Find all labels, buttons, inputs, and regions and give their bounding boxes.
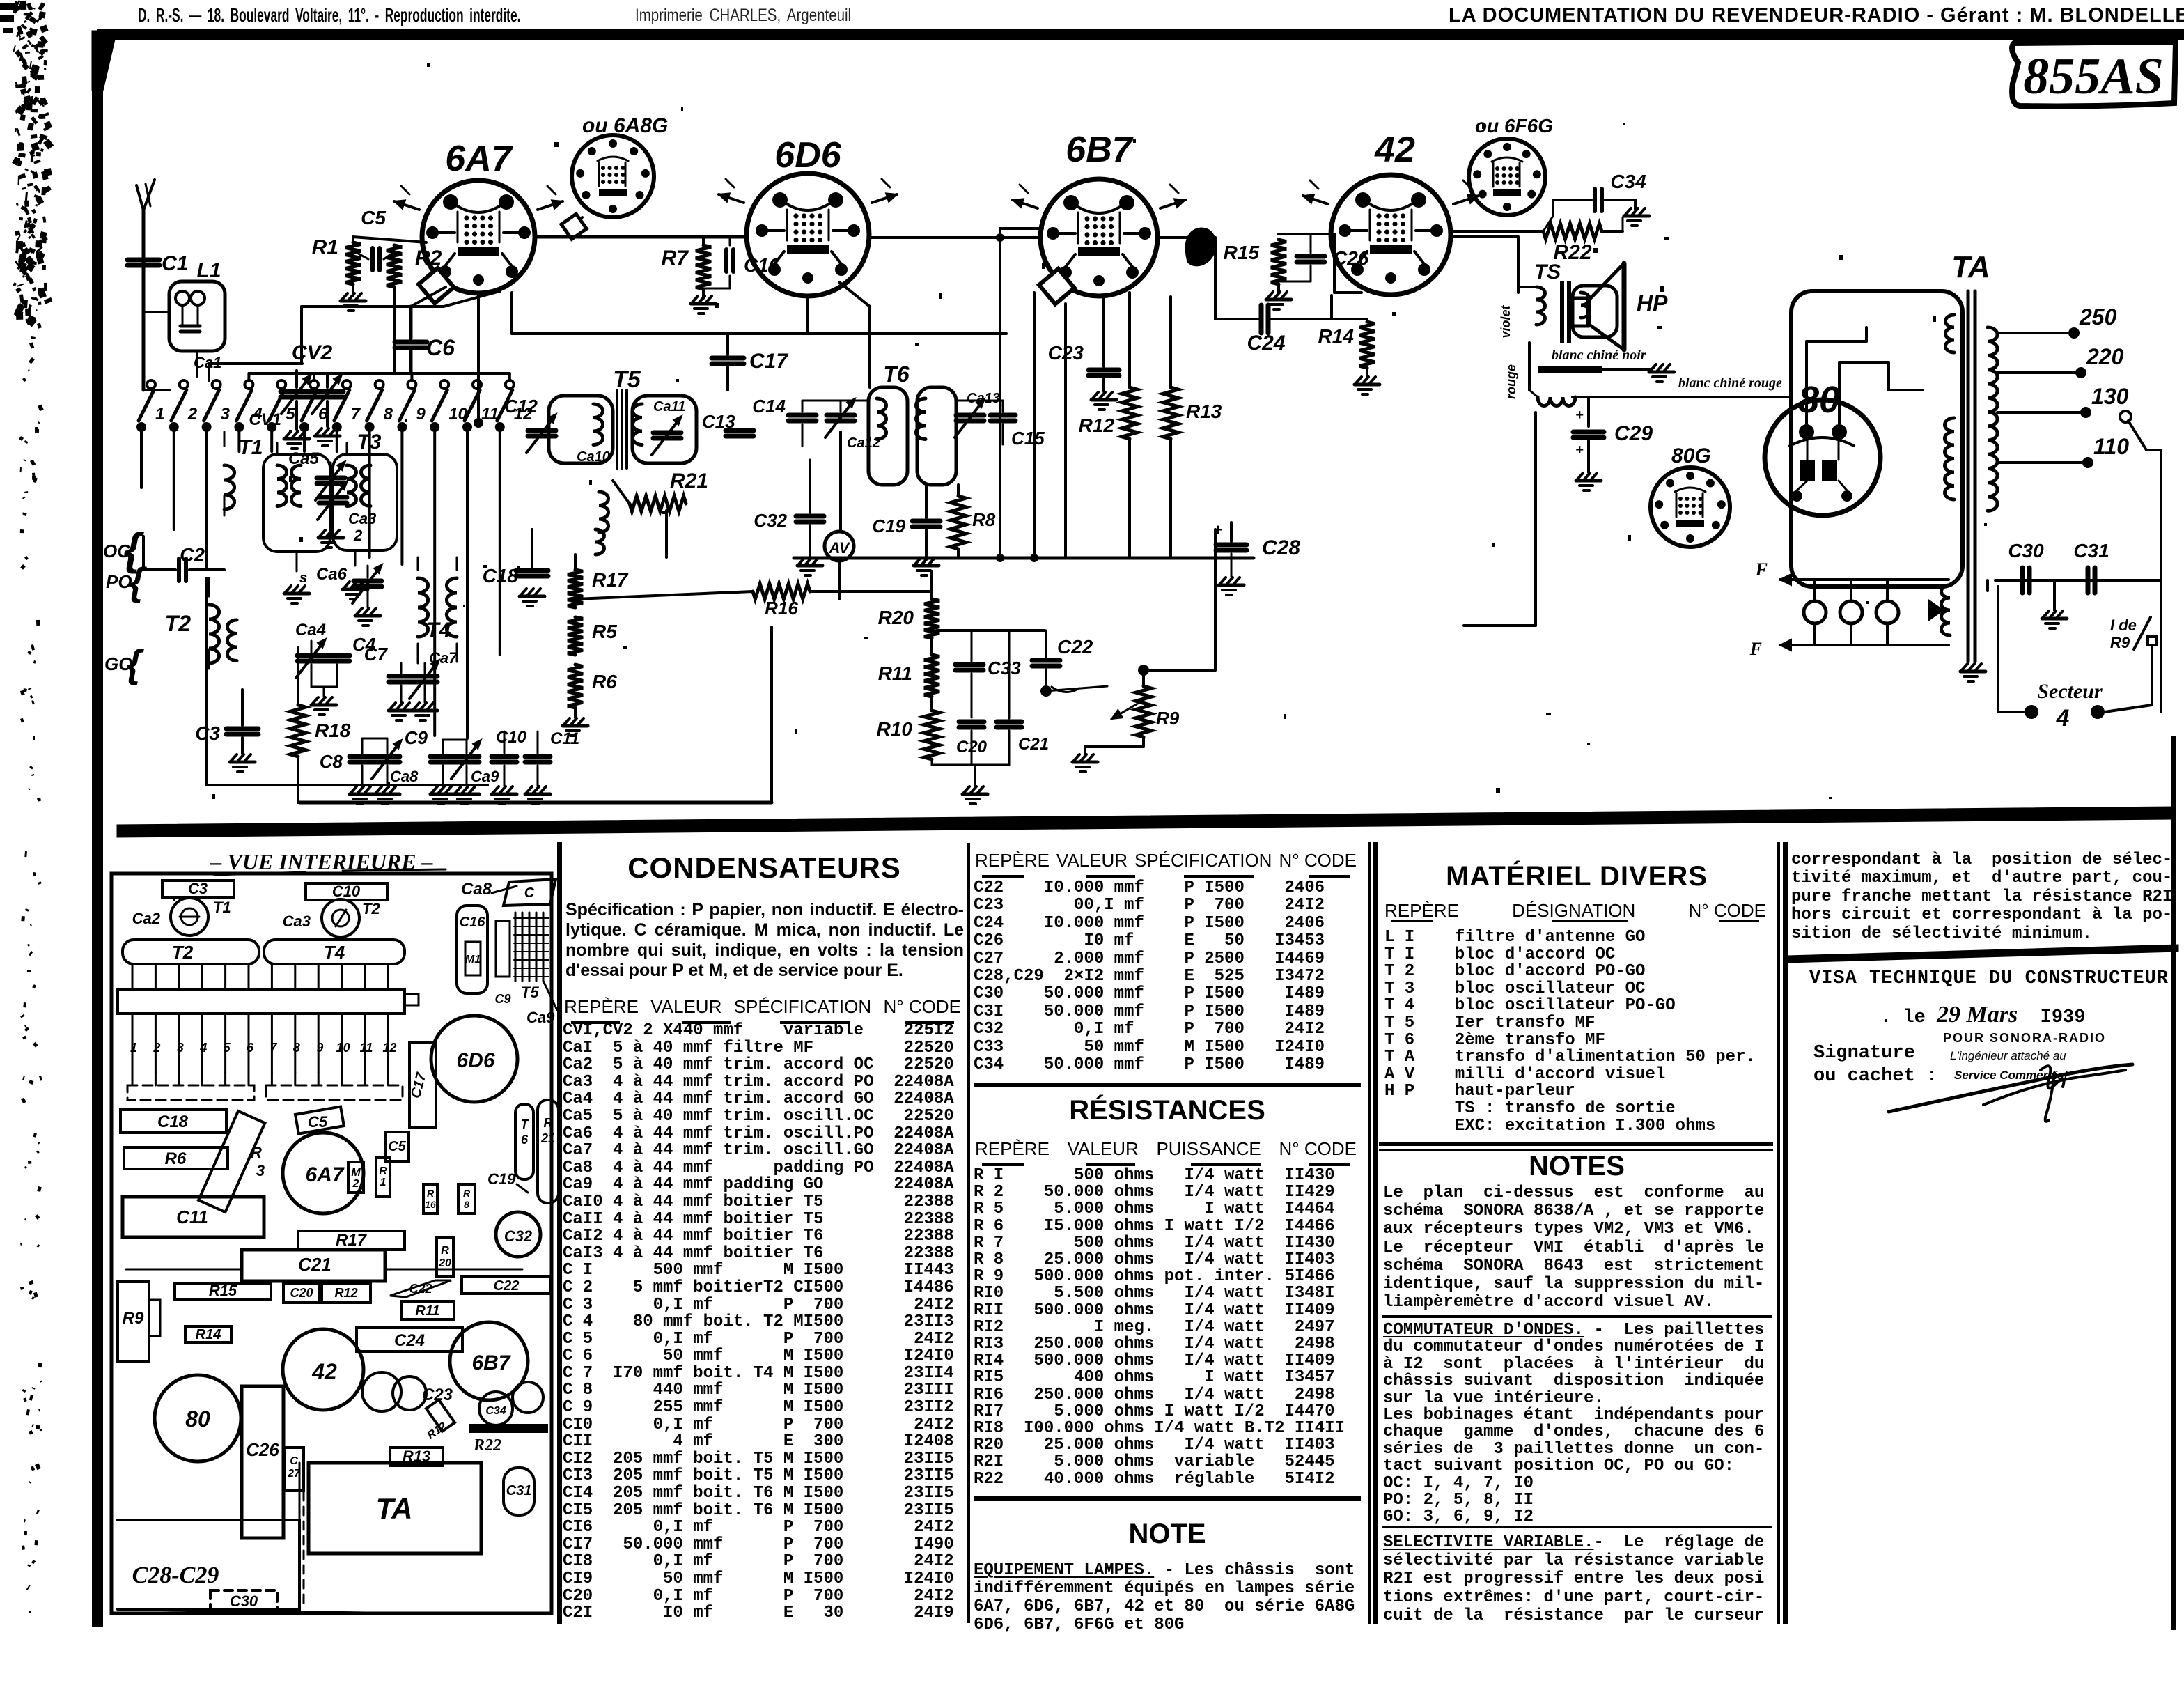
svg-text:R17: R17 <box>592 569 629 591</box>
svg-text:9: 9 <box>416 405 426 424</box>
svg-text:Ca6: Ca6 <box>316 565 348 584</box>
svg-text:C5: C5 <box>388 1139 406 1154</box>
svg-text:C9: C9 <box>405 727 428 748</box>
svg-text:2: 2 <box>353 527 363 544</box>
svg-text:2: 2 <box>153 1041 160 1055</box>
svg-text:9: 9 <box>316 1041 323 1055</box>
svg-text:C26: C26 <box>246 1439 279 1460</box>
svg-text:Ca2: Ca2 <box>132 910 161 927</box>
svg-text:220: 220 <box>2086 344 2124 369</box>
svg-text:C16: C16 <box>460 915 486 930</box>
svg-text:C19: C19 <box>872 515 905 536</box>
svg-text:C22: C22 <box>1057 636 1093 658</box>
svg-text:R: R <box>427 1188 435 1199</box>
svg-text:TS: TS <box>1534 261 1561 284</box>
svg-text:T2: T2 <box>165 611 192 636</box>
svg-text:R20: R20 <box>878 607 914 628</box>
svg-text:Ca3: Ca3 <box>283 913 311 930</box>
svg-text:M1: M1 <box>465 954 481 965</box>
svg-text:2: 2 <box>352 1178 359 1190</box>
svg-text:T1: T1 <box>238 436 263 459</box>
svg-text:2: 2 <box>187 405 198 424</box>
svg-text:R6: R6 <box>165 1149 187 1168</box>
svg-text:C7: C7 <box>364 644 389 665</box>
svg-text:R16: R16 <box>765 598 798 619</box>
svg-text:16: 16 <box>425 1199 436 1210</box>
svg-text:C12: C12 <box>504 396 538 417</box>
svg-text:6: 6 <box>521 1133 529 1147</box>
svg-text:C14: C14 <box>752 396 786 417</box>
svg-text:C: C <box>524 885 535 901</box>
svg-text:M: M <box>351 1167 361 1179</box>
svg-text:250: 250 <box>2079 304 2117 329</box>
svg-text:1: 1 <box>130 1041 137 1055</box>
svg-text:80G: 80G <box>1671 444 1711 467</box>
svg-text:TA: TA <box>376 1492 413 1525</box>
svg-text:ou 6A8G: ou 6A8G <box>582 114 668 137</box>
svg-text:C6: C6 <box>426 335 455 360</box>
svg-text:C29: C29 <box>1614 422 1653 445</box>
svg-text:C30: C30 <box>230 1592 258 1610</box>
svg-text:6B7: 6B7 <box>1066 130 1133 170</box>
svg-text:R8: R8 <box>972 509 996 530</box>
svg-text:7: 7 <box>351 405 361 424</box>
svg-text:Ca9: Ca9 <box>471 768 499 785</box>
svg-text:R13: R13 <box>1186 401 1222 422</box>
svg-text:10: 10 <box>336 1041 350 1055</box>
svg-text:R17: R17 <box>336 1231 368 1250</box>
svg-text:C24: C24 <box>1247 332 1285 355</box>
svg-text:{: { <box>126 642 144 685</box>
svg-text:R21: R21 <box>670 470 708 493</box>
svg-text:TA: TA <box>1951 250 1990 284</box>
svg-text:T2: T2 <box>172 942 194 963</box>
svg-text:R12: R12 <box>334 1286 357 1300</box>
svg-text:R10: R10 <box>877 718 913 740</box>
svg-text:12: 12 <box>382 1041 396 1055</box>
svg-text:L1: L1 <box>196 259 221 282</box>
svg-text:3: 3 <box>177 1041 184 1055</box>
svg-text:C24: C24 <box>394 1331 425 1350</box>
svg-text:C32: C32 <box>504 1227 533 1245</box>
svg-text:I de: I de <box>2110 616 2137 634</box>
svg-text:6: 6 <box>247 1041 254 1055</box>
svg-text:Ca11: Ca11 <box>653 399 685 414</box>
svg-text:C17: C17 <box>408 1071 430 1100</box>
svg-text:R: R <box>251 1144 262 1161</box>
svg-text:CV1: CV1 <box>249 410 281 429</box>
svg-text:C5: C5 <box>361 207 386 228</box>
svg-text:R14: R14 <box>1318 325 1355 347</box>
svg-text:AV: AV <box>829 539 851 557</box>
svg-text:Ca12: Ca12 <box>847 435 880 451</box>
svg-text:C20: C20 <box>290 1286 313 1300</box>
svg-text:C15: C15 <box>1011 428 1045 449</box>
svg-text:R22: R22 <box>473 1436 501 1455</box>
svg-text:R11: R11 <box>415 1303 439 1319</box>
svg-text:5: 5 <box>224 1041 231 1055</box>
svg-text:R: R <box>379 1165 387 1177</box>
svg-text:8: 8 <box>384 405 393 424</box>
svg-text:11: 11 <box>360 1041 373 1055</box>
svg-text:+: + <box>1575 442 1584 458</box>
svg-text:C11: C11 <box>550 729 579 748</box>
svg-text:R14: R14 <box>196 1327 221 1342</box>
svg-text:1: 1 <box>155 405 164 424</box>
svg-text:PO: PO <box>106 571 132 592</box>
svg-text:20: 20 <box>438 1257 451 1269</box>
svg-text:R: R <box>544 1116 553 1130</box>
svg-text:6B7: 6B7 <box>471 1351 510 1374</box>
svg-text:Ca9: Ca9 <box>526 1009 555 1026</box>
svg-text:s: s <box>299 571 307 586</box>
svg-text:T6: T6 <box>883 362 910 387</box>
svg-text:C23: C23 <box>1048 342 1084 364</box>
svg-text:blanc chiné rouge: blanc chiné rouge <box>1678 375 1782 391</box>
svg-text:T1: T1 <box>213 899 231 916</box>
svg-text:+: + <box>1213 521 1222 538</box>
svg-text:6A7: 6A7 <box>445 139 513 179</box>
svg-text:7: 7 <box>270 1041 277 1055</box>
svg-text:R6: R6 <box>592 671 617 692</box>
svg-text:Ca4: Ca4 <box>295 621 326 639</box>
svg-text:R18: R18 <box>315 720 351 741</box>
svg-text:42: 42 <box>1374 130 1415 170</box>
svg-text:T2: T2 <box>362 900 380 917</box>
svg-text:110: 110 <box>2093 434 2129 459</box>
svg-text:Ca10: Ca10 <box>577 449 610 465</box>
svg-text:R12: R12 <box>426 1420 449 1442</box>
svg-text:C10: C10 <box>496 728 527 747</box>
svg-text:T4: T4 <box>324 942 345 963</box>
svg-text:R5: R5 <box>592 621 617 642</box>
svg-text:F: F <box>1755 559 1768 580</box>
svg-text:T5: T5 <box>613 366 641 393</box>
svg-text:R: R <box>441 1245 449 1257</box>
svg-text:CV2: CV2 <box>292 341 333 364</box>
svg-text:C16: C16 <box>744 254 780 276</box>
svg-text:C8: C8 <box>320 751 343 772</box>
svg-text:C31: C31 <box>2073 540 2109 561</box>
svg-text:R9: R9 <box>1156 708 1180 729</box>
svg-text:HP: HP <box>1637 290 1668 316</box>
svg-text:8: 8 <box>293 1041 300 1055</box>
svg-text:R15: R15 <box>1224 242 1260 263</box>
svg-text:C10: C10 <box>332 883 361 900</box>
svg-text:3: 3 <box>256 1162 265 1179</box>
svg-text:6A7: 6A7 <box>305 1163 344 1186</box>
svg-text:C5: C5 <box>308 1113 328 1131</box>
svg-text:Ca3: Ca3 <box>348 510 376 527</box>
svg-text:C17: C17 <box>749 350 788 373</box>
svg-text:C21: C21 <box>1018 735 1049 754</box>
svg-text:21: 21 <box>540 1131 555 1145</box>
svg-text:C: C <box>290 1455 298 1467</box>
svg-text:1: 1 <box>380 1177 387 1188</box>
svg-text:R15: R15 <box>209 1282 237 1299</box>
svg-text:C33: C33 <box>988 658 1021 678</box>
svg-text:6D6: 6D6 <box>774 135 841 176</box>
svg-text:R9: R9 <box>2110 634 2130 651</box>
svg-text:Secteur: Secteur <box>2037 680 2103 703</box>
svg-text:R12: R12 <box>1079 414 1115 436</box>
svg-text:R: R <box>463 1188 471 1199</box>
svg-text:42: 42 <box>311 1359 337 1384</box>
svg-text:F: F <box>1749 639 1762 659</box>
svg-text:Ca13: Ca13 <box>967 391 1000 406</box>
svg-text:C1: C1 <box>162 252 188 275</box>
svg-text:C9: C9 <box>494 992 510 1006</box>
svg-text:C11: C11 <box>176 1207 208 1227</box>
svg-text:4: 4 <box>2056 705 2070 731</box>
svg-text:C3: C3 <box>195 722 220 744</box>
svg-text:R9: R9 <box>123 1309 144 1328</box>
svg-text:C2: C2 <box>180 544 205 566</box>
svg-text:T5: T5 <box>521 984 539 1001</box>
svg-text:R7: R7 <box>662 247 689 270</box>
svg-text:violet: violet <box>1499 304 1513 338</box>
svg-text:C32: C32 <box>754 510 787 531</box>
svg-text:C28-C29: C28-C29 <box>132 1562 219 1588</box>
svg-text:3: 3 <box>221 405 231 424</box>
svg-text:T: T <box>521 1117 530 1131</box>
svg-text:130: 130 <box>2091 384 2129 409</box>
svg-text:6D6: 6D6 <box>456 1049 494 1072</box>
svg-text:rouge: rouge <box>1504 364 1518 399</box>
svg-text:C3: C3 <box>188 880 208 897</box>
svg-text:C22: C22 <box>494 1278 520 1294</box>
svg-text:C22: C22 <box>409 1282 432 1296</box>
svg-text:8: 8 <box>464 1199 469 1210</box>
svg-text:80: 80 <box>185 1406 210 1432</box>
svg-text:C34: C34 <box>485 1405 506 1417</box>
svg-text:C18: C18 <box>157 1112 189 1131</box>
svg-text:C34: C34 <box>1610 171 1646 192</box>
svg-text:R2: R2 <box>415 247 442 270</box>
svg-text:Ca8: Ca8 <box>390 768 419 785</box>
svg-text:+: + <box>1575 408 1584 423</box>
svg-text:C30: C30 <box>2008 540 2044 561</box>
svg-text:ou 6F6G: ou 6F6G <box>1475 115 1553 137</box>
svg-text:C31: C31 <box>506 1483 532 1498</box>
svg-text:Ca8: Ca8 <box>461 880 492 899</box>
svg-text:R11: R11 <box>878 662 912 684</box>
svg-text:C28: C28 <box>1262 536 1300 559</box>
svg-text:blanc chiné noir: blanc chiné noir <box>1552 348 1646 363</box>
svg-text:C21: C21 <box>298 1254 331 1275</box>
svg-text:R1: R1 <box>312 236 338 259</box>
svg-text:4: 4 <box>199 1041 207 1055</box>
svg-text:C19: C19 <box>487 1170 516 1188</box>
svg-text:855AS: 855AS <box>2023 48 2164 105</box>
